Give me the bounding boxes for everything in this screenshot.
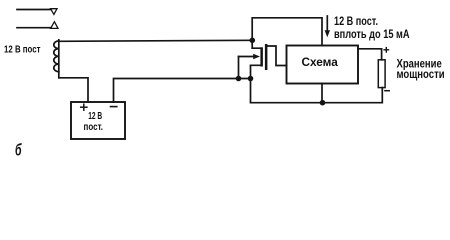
transistor Q1 channel bar <box>260 47 263 66</box>
node D (junction dot on return wire) <box>320 100 326 106</box>
svg-text:б: б <box>15 141 22 160</box>
arrow: 12V supply down arrow <box>326 16 328 32</box>
circuit block U1 (Схема) <box>287 46 359 84</box>
wire: drain node up and over to circuit box top <box>252 18 322 46</box>
transistor Q1 source lead <box>251 65 261 78</box>
connector triangle upper (points down) <box>51 9 57 15</box>
inductor L1 (12V feed coil) <box>58 40 60 78</box>
svg-text:12 В пост.: 12 В пост. <box>334 16 378 28</box>
svg-text:12 В пост: 12 В пост <box>4 44 41 55</box>
transistor Q1 drain lead <box>252 40 260 48</box>
node B (junction dot lower rail left) <box>236 76 242 82</box>
wire: coil bottom to battery plus <box>59 78 88 102</box>
node A (junction dot on top rail) <box>250 38 256 44</box>
svg-text:мощности: мощности <box>397 69 445 81</box>
transistor Q1 gate bar <box>265 44 268 70</box>
wire: battery minus up and lower rail to transistor <box>114 79 251 103</box>
capacitor C1 storage element body <box>378 60 385 88</box>
wire: bottom return <box>251 79 383 103</box>
node C (junction dot lower rail right) <box>248 76 254 82</box>
wire: circuit box bottom to return wire <box>321 84 323 103</box>
label minus storage (drawn) <box>385 90 389 92</box>
label plus storage (drawn) <box>384 48 388 52</box>
connector line upper (to pickup coil) <box>17 9 51 11</box>
label minus battery (drawn) <box>111 106 117 108</box>
transistor Q1 gate lead to circuit box <box>267 46 286 66</box>
wire: top rail from coil to drain node <box>59 40 252 41</box>
wire: substrate to lower rail <box>238 57 240 79</box>
battery B1 12V box <box>71 102 125 139</box>
wire: circuit box right to storage top <box>358 49 382 60</box>
connector line lower <box>17 27 51 29</box>
transistor Q1 substrate arrow <box>239 56 255 58</box>
connector triangle lower (points up) <box>51 22 58 29</box>
svg-text:пост.: пост. <box>84 121 104 133</box>
svg-text:вплоть до 15 мА: вплоть до 15 мА <box>334 29 410 41</box>
label plus battery (drawn) <box>81 104 87 110</box>
svg-text:Схема: Схема <box>302 55 339 69</box>
